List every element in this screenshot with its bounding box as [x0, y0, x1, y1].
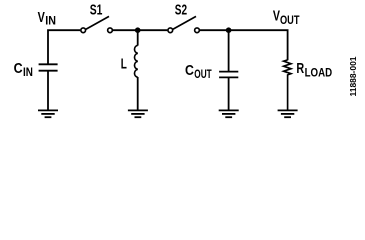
svg-text:V: V — [38, 10, 45, 26]
svg-text:C: C — [14, 61, 23, 77]
svg-text:S2: S2 — [175, 3, 187, 19]
svg-text:11888-001: 11888-001 — [349, 56, 358, 97]
svg-text:IN: IN — [23, 67, 33, 79]
svg-text:OUT: OUT — [194, 69, 211, 81]
svg-text:IN: IN — [45, 16, 56, 28]
svg-text:S1: S1 — [90, 3, 103, 19]
svg-text:C: C — [185, 63, 194, 79]
svg-text:OUT: OUT — [280, 15, 300, 27]
svg-text:LOAD: LOAD — [305, 67, 333, 79]
svg-text:R: R — [296, 61, 304, 77]
svg-text:L: L — [121, 56, 127, 72]
